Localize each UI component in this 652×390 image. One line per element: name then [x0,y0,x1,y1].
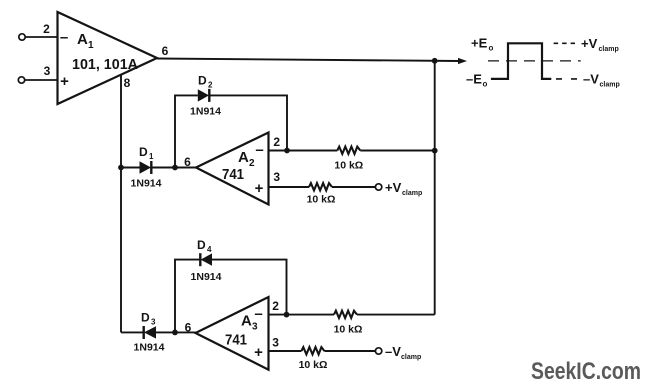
svg-text:1N914: 1N914 [134,342,165,354]
wire D3 to node 6 [156,331,196,333]
waveform +Vclamp dashed level [554,42,575,44]
wire R3 to bus corner [357,314,435,316]
svg-text:clamp: clamp [599,46,619,53]
svg-text:10 kΩ: 10 kΩ [334,324,363,336]
node main output junction [432,58,438,64]
svg-text:+: + [254,344,263,361]
svg-text:A: A [77,31,88,48]
svg-text:3: 3 [151,318,156,327]
svg-text:+: + [60,73,69,90]
input terminal pin 3 [18,77,57,83]
svg-text:8: 8 [124,76,131,90]
svg-text:741: 741 [225,332,247,349]
svg-text:3: 3 [44,64,51,78]
svg-text:clamp: clamp [402,190,422,197]
op-amp A3 labels [225,306,263,362]
svg-text:–: – [60,29,68,46]
wire R1 to bus [360,150,434,152]
svg-text:–: – [255,142,263,159]
wire R4 to -Vclamp terminal [324,350,375,352]
input terminal pin 2 [19,34,58,40]
wire right bus vertical [434,61,436,315]
svg-text:2: 2 [249,158,255,169]
op-amp A2 labels [222,142,264,198]
svg-text:+E: +E [471,36,488,51]
waveform -Vclamp dashed level [556,78,580,80]
arrowhead [458,58,467,64]
op-amp A3 [196,297,269,370]
svg-text:–V: –V [583,72,599,87]
op-amp A1 labels [60,29,138,90]
svg-text:A: A [238,149,249,166]
svg-text:D: D [197,238,206,252]
resistor R4 10k [301,347,324,354]
node bus / R junction [432,148,438,154]
wire pin8 corner to D3 [121,331,144,333]
op-amp A2 [196,133,269,205]
wire D2 feedback left vertical [175,95,198,167]
waveform pulse trace [491,43,551,79]
svg-text:SeekIC.com: SeekIC.com [531,358,641,385]
svg-text:D: D [141,311,150,325]
wire D4 to A3 pin 2 [212,260,287,315]
svg-text:2: 2 [208,81,213,90]
svg-text:2: 2 [272,299,279,313]
node A3 pin 6 [172,330,178,336]
wire R2 to +Vclamp terminal [332,186,375,188]
svg-text:clamp: clamp [600,82,620,89]
wire A2 pin 2 to bus [269,150,338,152]
svg-text:1N914: 1N914 [191,271,222,283]
svg-text:741: 741 [222,166,244,183]
diode D1 [140,161,152,174]
svg-text:o: o [489,44,494,53]
svg-text:3: 3 [272,336,279,350]
svg-text:6: 6 [162,44,169,58]
svg-text:o: o [483,80,488,89]
svg-text:3: 3 [273,170,280,184]
svg-text:101, 101A: 101, 101A [72,56,138,73]
svg-text:+V: +V [385,180,402,195]
svg-text:+V: +V [581,36,598,51]
svg-text:1N914: 1N914 [131,178,162,190]
wire D1 to node 6 [151,167,196,169]
terminal -Vclamp [375,348,381,354]
wire pin 8 vertical [120,75,122,333]
diode D4 [200,253,212,266]
svg-text:–: – [254,306,262,323]
svg-text:10 kΩ: 10 kΩ [334,160,363,172]
svg-text:+: + [255,180,264,197]
svg-text:6: 6 [185,321,192,335]
svg-text:D: D [139,145,148,159]
op-amp A1 [58,12,158,104]
svg-text:–V: –V [385,344,401,359]
node A3 pin 2 junction [284,312,290,318]
svg-text:D: D [198,74,207,88]
svg-text:2: 2 [43,22,50,36]
wire A3 pin 2 to bus [269,314,335,316]
resistor R2 10k [309,183,332,190]
svg-text:4: 4 [207,245,212,254]
wire D4 feedback left vertical [175,260,200,333]
terminal +Vclamp [375,184,381,190]
node A2 pin 6 [172,165,178,171]
resistor R1 10k [337,147,360,154]
waveform zero axis dashed [488,60,581,62]
wire A1 output [157,59,459,62]
svg-text:10 kΩ: 10 kΩ [307,194,336,206]
svg-text:clamp: clamp [401,354,421,361]
resistor R3 10k [334,311,357,318]
wire A3 pin 3 [269,350,302,352]
svg-text:6: 6 [184,155,191,169]
svg-text:–E: –E [466,72,482,87]
node D1 branch [118,165,124,171]
wire D2 to A2 pin 2 [209,95,287,150]
svg-text:10 kΩ: 10 kΩ [299,359,328,371]
svg-text:1N914: 1N914 [190,106,221,118]
svg-text:1: 1 [88,40,94,51]
wire D1 left lead [121,167,140,169]
diode D3 [144,326,156,339]
node A2 pin 2 junction [284,148,290,154]
svg-text:2: 2 [273,135,280,149]
diode D2 [198,89,210,102]
svg-text:A: A [241,313,252,330]
svg-text:3: 3 [252,322,258,333]
svg-text:1: 1 [149,152,154,161]
wire A2 pin 3 [269,186,310,188]
